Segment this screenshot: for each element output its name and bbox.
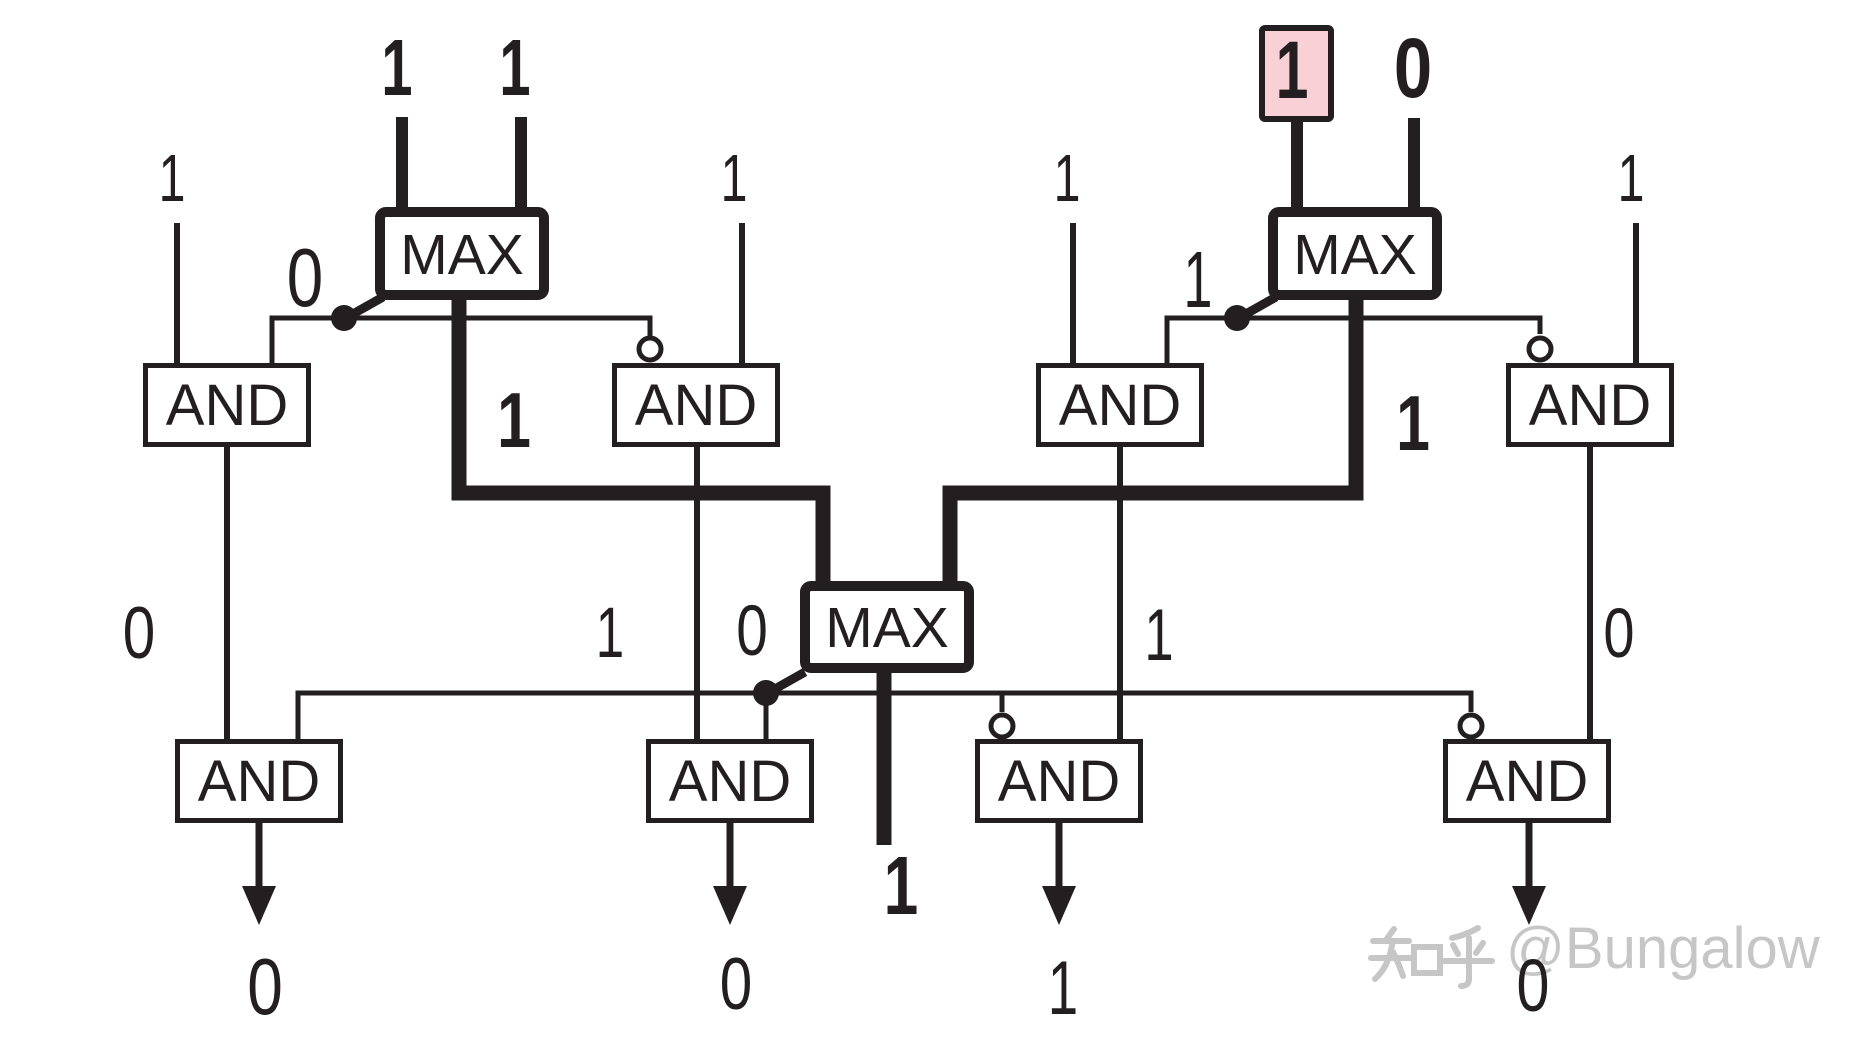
svg-text:0: 0 xyxy=(1517,945,1550,1028)
AND gate G2 xyxy=(615,366,778,445)
svg-text:1: 1 xyxy=(1144,595,1173,676)
svg-text:0: 0 xyxy=(1394,22,1432,116)
svg-text:1: 1 xyxy=(381,22,412,112)
svg-text:1: 1 xyxy=(1184,236,1213,325)
output arrow of AND G6 xyxy=(727,823,734,897)
svg-text:1: 1 xyxy=(1054,141,1081,216)
net L: MAX U1 complement net to G1 and G2 xyxy=(272,318,650,363)
MAX gate U3 xyxy=(805,586,969,668)
svg-text:1: 1 xyxy=(721,141,748,216)
inhibit circle at AND G8 xyxy=(1460,715,1482,737)
inhibit circle at AND G4 xyxy=(1529,338,1551,360)
wire: input into AND G3 xyxy=(1070,223,1076,363)
net M: MAX U3 complement net across bottom xyxy=(298,693,1471,739)
svg-text:AND: AND xyxy=(669,749,791,814)
svg-text:AND: AND xyxy=(1059,373,1181,438)
svg-text:MAX: MAX xyxy=(1293,223,1417,287)
wire: diagonal from junction to MAX U3 xyxy=(766,672,805,694)
svg-text:AND: AND xyxy=(166,373,288,438)
svg-text:1: 1 xyxy=(884,839,919,932)
AND gate G5 xyxy=(178,742,341,821)
wire: MAX U3 output xyxy=(877,667,892,845)
wire: input into AND G2 xyxy=(739,223,745,363)
inhibit circle at AND G2 xyxy=(639,338,661,360)
AND gate G4 xyxy=(1509,366,1672,445)
svg-text:1: 1 xyxy=(1396,380,1430,467)
wire: stub from net M junction to AND G6 xyxy=(764,693,769,739)
svg-text:1: 1 xyxy=(499,22,530,112)
wire: AND G1 output down to AND G5 xyxy=(224,447,230,739)
svg-text:AND: AND xyxy=(1529,373,1651,438)
output arrow of AND G8 xyxy=(1526,823,1533,897)
inhibit circle at AND G7 xyxy=(991,715,1013,737)
wire: MAX U2 output thick route to MAX U3 xyxy=(950,296,1356,586)
junction dot net L xyxy=(331,305,357,331)
svg-text:MAX: MAX xyxy=(400,223,524,287)
net R: MAX U2 complement net to G3 and G4 xyxy=(1167,318,1540,363)
svg-text:AND: AND xyxy=(198,749,320,814)
wire: input into AND G1 xyxy=(174,223,180,363)
wire: input b2 into MAX U2 xyxy=(1408,118,1420,212)
watermark xyxy=(1371,928,1492,986)
svg-text:AND: AND xyxy=(1466,749,1588,814)
junction dot net M xyxy=(753,680,779,706)
svg-text:@Bungalow: @Bungalow xyxy=(1506,916,1821,981)
AND gate G6 xyxy=(649,742,812,821)
svg-text:1: 1 xyxy=(596,594,624,673)
svg-text:0: 0 xyxy=(287,231,323,324)
svg-text:1: 1 xyxy=(497,377,531,464)
AND gate G8 xyxy=(1446,742,1609,821)
svg-text:0: 0 xyxy=(247,942,283,1031)
svg-text:1: 1 xyxy=(159,141,186,216)
AND gate G3 xyxy=(1039,366,1202,445)
svg-text:1: 1 xyxy=(1048,946,1078,1031)
svg-text:AND: AND xyxy=(635,373,757,438)
wire: AND G4 output down to AND G8 xyxy=(1587,447,1593,739)
wire: AND G3 output down to AND G7 xyxy=(1117,447,1123,739)
wire: MAX U1 output thick route to MAX U3 xyxy=(459,296,823,586)
svg-text:1: 1 xyxy=(1618,141,1645,216)
output arrow of AND G7 xyxy=(1056,823,1063,897)
junction dot net R xyxy=(1224,305,1250,331)
svg-text:0: 0 xyxy=(720,944,752,1026)
svg-text:0: 0 xyxy=(736,591,768,671)
svg-text:AND: AND xyxy=(998,749,1120,814)
wire: AND G2 output down to AND G6 xyxy=(694,447,700,739)
AND gate G7 xyxy=(978,742,1141,821)
svg-text:0: 0 xyxy=(1603,595,1634,672)
output arrow of AND G5 xyxy=(256,823,263,897)
MAX gate U1 xyxy=(380,212,544,295)
wire: diagonal from junction to MAX U2 xyxy=(1237,297,1276,319)
svg-text:0: 0 xyxy=(123,593,155,675)
MAX gate U2 xyxy=(1273,212,1437,295)
svg-text:MAX: MAX xyxy=(825,596,949,660)
wire: stub from net M to inhibit circle of AND G7 xyxy=(1000,693,1005,712)
svg-text:1: 1 xyxy=(1276,25,1309,117)
wire: input b1 from pink box into MAX U2 xyxy=(1291,120,1303,212)
wire: input a2 into MAX U1 xyxy=(515,117,527,212)
wire: input into AND G4 xyxy=(1633,223,1639,363)
wire: input a1 into MAX U1 xyxy=(396,117,408,212)
wire: diagonal from junction to MAX U1 xyxy=(344,297,383,319)
highlighted input box xyxy=(1262,28,1331,119)
AND gate G1 xyxy=(146,366,309,445)
